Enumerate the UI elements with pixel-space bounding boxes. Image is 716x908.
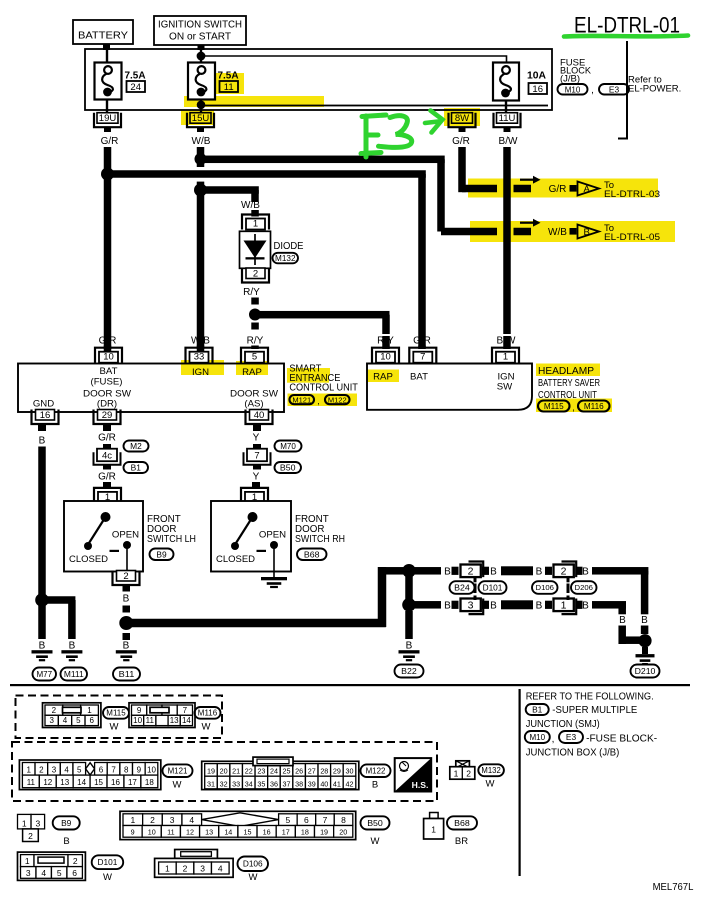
svg-text:SWITCH RH: SWITCH RH	[295, 534, 345, 545]
wire R/Y branch right to headlamp RAP	[255, 311, 390, 319]
LH switch pivot	[101, 512, 111, 522]
svg-text:SW: SW	[497, 382, 513, 393]
svg-text:B9: B9	[61, 818, 72, 828]
svg-text:15U: 15U	[192, 113, 210, 124]
fuse 24 number box	[127, 81, 146, 92]
svg-text:10A: 10A	[527, 71, 546, 82]
oval M121 legend	[163, 764, 193, 777]
wire W/B vertical lower	[197, 182, 205, 352]
stub above door switch pin 1	[103, 482, 111, 489]
svg-text:1: 1	[22, 818, 27, 828]
svg-text:(DR): (DR)	[97, 399, 117, 410]
svg-text:,: ,	[317, 396, 320, 406]
svg-text:2: 2	[253, 268, 258, 279]
smart pin 10 connector	[95, 348, 122, 363]
svg-text:18: 18	[145, 778, 154, 787]
svg-text:W/B: W/B	[548, 227, 567, 238]
svg-text:14: 14	[224, 828, 232, 837]
green underline of title	[564, 36, 688, 37]
svg-text:B24: B24	[454, 583, 470, 593]
oval M132 legend	[478, 764, 504, 776]
oval B24	[450, 581, 475, 594]
headlamp battery saver control unit box	[367, 364, 532, 410]
svg-text:14: 14	[182, 716, 191, 725]
wire segment bottom run	[501, 600, 533, 609]
oval M10 refer	[525, 731, 550, 743]
wire G/R branch right	[108, 170, 426, 178]
svg-text:40: 40	[320, 779, 328, 788]
svg-text:D210: D210	[635, 666, 656, 676]
mate dash D106 D206	[567, 578, 570, 583]
svg-text:37: 37	[283, 779, 291, 788]
RH switch travel dash	[257, 550, 267, 552]
oval M116 ref	[578, 401, 610, 412]
LH door switch pin 2 connector	[113, 571, 140, 586]
diode pin 1 connector	[242, 215, 269, 230]
junction dot D210	[638, 634, 651, 647]
wire B branch to M111 ground	[42, 596, 75, 604]
RH switch closed contact	[231, 542, 239, 550]
svg-text:34: 34	[245, 779, 253, 788]
svg-text:B: B	[582, 600, 589, 611]
SMJ connector 1	[562, 599, 577, 615]
diode pin 2 connector	[242, 268, 269, 283]
wire segment top run	[501, 566, 533, 575]
svg-text:M10: M10	[565, 84, 581, 94]
svg-text:M10: M10	[529, 732, 545, 742]
svg-text:3: 3	[170, 815, 175, 825]
svg-text:M116: M116	[198, 709, 217, 718]
svg-text:2: 2	[123, 571, 128, 582]
svg-text:W/B: W/B	[192, 136, 211, 147]
svg-text:G/R: G/R	[413, 336, 431, 347]
svg-text:11: 11	[224, 82, 234, 93]
connector face B9	[18, 814, 32, 829]
RH switch pivot	[248, 512, 258, 522]
svg-text:B: B	[63, 836, 69, 847]
svg-text:M132: M132	[275, 253, 296, 263]
svg-text:3: 3	[200, 864, 205, 874]
svg-text:IGNITION SWITCH: IGNITION SWITCH	[158, 18, 242, 30]
RH switch ground wire	[273, 545, 275, 577]
wire G/R vertical from 19U	[104, 147, 112, 352]
connector 11U	[494, 113, 521, 128]
svg-text:18: 18	[301, 828, 309, 837]
svg-text:3: 3	[26, 868, 31, 878]
svg-text:1: 1	[253, 219, 258, 230]
wire B GND vertical	[38, 447, 46, 596]
fuse 16 number box	[529, 83, 548, 94]
svg-text:38: 38	[295, 779, 303, 788]
RH switch ground symbol	[261, 577, 287, 580]
svg-text:5: 5	[76, 716, 81, 725]
svg-text:27: 27	[308, 767, 316, 776]
oval M77	[33, 668, 57, 681]
svg-text:G/R: G/R	[101, 136, 119, 147]
smart pin 29 connector	[94, 410, 121, 425]
legend dashed box 2	[12, 742, 437, 801]
refer column vertical line	[519, 689, 521, 876]
svg-text:7: 7	[323, 815, 328, 825]
svg-text:M116: M116	[584, 402, 604, 411]
svg-text:3: 3	[468, 600, 474, 612]
svg-text:D101: D101	[98, 858, 118, 867]
svg-text:32: 32	[220, 779, 228, 788]
svg-text:1: 1	[561, 600, 567, 612]
svg-text:B11: B11	[119, 669, 135, 679]
junction dot bottom run	[402, 598, 416, 612]
svg-text:5: 5	[252, 352, 257, 363]
svg-text:(AS): (AS)	[244, 399, 263, 410]
svg-text:6: 6	[304, 815, 309, 825]
connector face M115	[43, 703, 101, 728]
svg-text:31: 31	[207, 779, 215, 788]
wire W/B branch to EL-DTRL-05	[201, 156, 445, 164]
svg-text:2: 2	[52, 706, 57, 715]
svg-text:B50: B50	[280, 463, 296, 473]
svg-text:4: 4	[63, 716, 68, 725]
wire to first B	[413, 567, 441, 575]
svg-text:D101: D101	[483, 583, 503, 592]
svg-text:B: B	[536, 566, 543, 577]
svg-text:B: B	[490, 566, 497, 577]
svg-text:M115: M115	[106, 709, 126, 718]
svg-text:5: 5	[77, 766, 82, 775]
svg-text:6: 6	[99, 766, 104, 775]
svg-text:2: 2	[150, 815, 155, 825]
svg-text:W: W	[202, 722, 211, 733]
LH switch open contact wire to pin 2	[126, 545, 128, 571]
green handwritten E3 annotation	[361, 115, 412, 157]
junction dot top run	[402, 564, 416, 578]
svg-text:4: 4	[218, 864, 223, 874]
svg-text:15: 15	[243, 828, 251, 837]
top slot M122	[253, 757, 293, 766]
oval M111	[61, 668, 88, 681]
svg-text:4: 4	[41, 868, 46, 878]
svg-text:7: 7	[111, 766, 116, 775]
svg-text:2: 2	[183, 864, 188, 874]
svg-text:M122: M122	[366, 767, 386, 776]
stub below pin 29	[103, 425, 111, 431]
svg-text:(FUSE): (FUSE)	[91, 377, 123, 388]
svg-text:24: 24	[270, 767, 278, 776]
svg-text:B: B	[444, 566, 451, 577]
dash segment below diode	[251, 298, 258, 305]
oval D101 inline	[479, 581, 507, 594]
stub above headlamp pin 1	[503, 336, 511, 349]
oval E3 refer	[559, 731, 583, 743]
svg-text:7.5A: 7.5A	[218, 71, 239, 82]
svg-text:3: 3	[52, 766, 57, 775]
svg-text:24: 24	[130, 82, 141, 93]
stub left of connector 1	[545, 601, 552, 609]
svg-text:21: 21	[232, 767, 240, 776]
oval D106 legend	[238, 857, 269, 872]
svg-text:G/R: G/R	[549, 184, 567, 195]
diode symbol	[254, 234, 256, 265]
RH door switch pin 1 connector	[241, 488, 268, 503]
svg-text:1: 1	[87, 706, 92, 715]
LH door switch pin 1 connector	[94, 488, 121, 503]
stub below pin 40	[253, 425, 261, 431]
connector face D106	[175, 850, 218, 859]
stub above smart pin 5	[251, 346, 259, 350]
svg-text:D206: D206	[575, 583, 593, 592]
oval B1	[124, 462, 149, 473]
svg-text:CLOSED: CLOSED	[69, 554, 108, 565]
svg-text:16: 16	[111, 778, 120, 787]
svg-text:4c: 4c	[102, 451, 112, 462]
oval B50 inline	[275, 462, 302, 473]
svg-text:B: B	[123, 593, 130, 604]
svg-text:BATTERY SAVER: BATTERY SAVER	[538, 378, 600, 389]
highlight over RAP pin label headlamp unit	[367, 370, 399, 383]
svg-text:36: 36	[270, 779, 278, 788]
svg-text:Y: Y	[253, 433, 260, 444]
SMJ connector 2 top run	[469, 562, 484, 578]
svg-text:(J/B): (J/B)	[560, 74, 580, 85]
svg-text:SWITCH LH: SWITCH LH	[147, 534, 196, 545]
wire fuse 16 to 11U	[505, 101, 507, 113]
svg-text:H.S.: H.S.	[412, 780, 429, 790]
svg-text:1: 1	[431, 825, 436, 835]
svg-text:13: 13	[170, 716, 179, 725]
green arrow annotation	[425, 111, 443, 133]
oval B22	[395, 665, 424, 678]
svg-text:10: 10	[147, 766, 156, 775]
wire B to junction dot top	[378, 567, 406, 575]
mate dash B24 D101	[474, 578, 477, 583]
svg-text:B: B	[490, 600, 497, 611]
svg-text:BAT: BAT	[100, 366, 118, 377]
svg-text:M115: M115	[544, 402, 564, 411]
svg-text:W: W	[110, 722, 119, 733]
oval M115 legend	[103, 707, 129, 719]
connector face M121	[19, 760, 160, 790]
svg-text:G/R: G/R	[98, 433, 116, 444]
svg-text:15: 15	[94, 778, 103, 787]
connector face B68	[430, 813, 439, 819]
highlight over IGN pin label	[181, 360, 224, 375]
svg-text:B: B	[406, 641, 413, 652]
highlight over G/R to EL-DTRL-03 row	[468, 179, 658, 198]
svg-text:B/W: B/W	[499, 136, 518, 147]
svg-text:30: 30	[346, 767, 354, 776]
junction dot B11	[119, 616, 133, 630]
svg-text:M122: M122	[328, 395, 347, 404]
oval D106 inline	[532, 581, 558, 594]
svg-text:3: 3	[49, 716, 54, 725]
svg-text:33: 33	[232, 779, 240, 788]
oval M122	[325, 395, 350, 404]
svg-text:B50: B50	[367, 818, 383, 828]
dash below B11 junction	[123, 633, 131, 640]
svg-text:B: B	[584, 227, 590, 238]
stub to connector 7	[253, 444, 261, 450]
oval B11	[113, 668, 140, 681]
junction dot G/R	[101, 168, 114, 181]
svg-text:B: B	[123, 641, 130, 652]
svg-text:35: 35	[257, 779, 265, 788]
svg-text:29: 29	[333, 767, 341, 776]
svg-text:12: 12	[43, 778, 52, 787]
svg-text:B: B	[372, 780, 378, 791]
svg-text:GND: GND	[33, 399, 54, 410]
svg-text:MEL767L: MEL767L	[653, 881, 694, 893]
oval B68 legend	[447, 816, 477, 829]
svg-text:7: 7	[420, 352, 425, 363]
LH switch travel dash	[110, 550, 120, 552]
svg-text:Y: Y	[253, 471, 260, 482]
svg-text:2: 2	[73, 856, 78, 866]
svg-text:BATTERY: BATTERY	[78, 30, 128, 42]
svg-text:10: 10	[148, 828, 156, 837]
stub above headlamp pin 10	[382, 336, 390, 349]
oval M115 ref	[538, 401, 570, 412]
stub left of D106/D206	[545, 567, 552, 575]
svg-text:R/Y: R/Y	[247, 336, 264, 347]
oval B50 legend	[361, 816, 390, 829]
svg-text:33: 33	[194, 352, 205, 363]
oval M116 legend	[195, 707, 221, 719]
svg-text:-SUPER MULTIPLE: -SUPER MULTIPLE	[552, 704, 637, 716]
svg-text:7: 7	[183, 706, 188, 715]
oval M121	[290, 395, 315, 404]
svg-text:9: 9	[131, 828, 135, 837]
oval M10	[558, 84, 588, 95]
HS hand symbol	[395, 758, 432, 791]
triangle connector A	[578, 182, 600, 196]
stub below connector 7	[253, 464, 261, 470]
oval D206	[571, 581, 597, 594]
svg-text:W/B: W/B	[241, 200, 260, 211]
stub above RH switch pin 1	[252, 482, 260, 489]
svg-text:13: 13	[60, 778, 69, 787]
stub right of D106/D206	[576, 567, 583, 575]
junction dot B gnd	[35, 593, 49, 607]
smart pin 16 connector	[32, 410, 59, 425]
wire B down to M77 ground	[38, 605, 46, 639]
highlight over W/B to EL-DTRL-05 row	[470, 221, 675, 242]
svg-text:B: B	[582, 566, 589, 577]
svg-text:11: 11	[27, 778, 36, 787]
stub right of connector 3	[482, 601, 489, 609]
svg-text:20: 20	[220, 767, 228, 776]
fuse 11 number box	[220, 81, 239, 92]
bracket line	[618, 41, 627, 139]
svg-text:2: 2	[466, 769, 471, 779]
wire elbow down to D210 junction	[618, 626, 626, 645]
dash segment above diode	[251, 210, 258, 217]
svg-text:5: 5	[57, 868, 62, 878]
ignition switch box	[154, 16, 246, 45]
junction dot R/Y	[249, 309, 261, 321]
connector face M116	[129, 703, 195, 728]
svg-text:25: 25	[283, 767, 291, 776]
highlight over SMART ENTRANCE text	[287, 368, 330, 376]
svg-text:HEADLAMP: HEADLAMP	[538, 366, 594, 377]
svg-text:29: 29	[102, 410, 113, 421]
ground D210	[636, 654, 655, 657]
stub above headlamp pin 7	[418, 346, 426, 350]
svg-text:11: 11	[146, 716, 155, 725]
highlight over fuse 11 label	[216, 73, 244, 94]
svg-text:17: 17	[282, 828, 290, 837]
svg-text:B68: B68	[304, 549, 320, 559]
wire bottom run right elbow	[592, 601, 626, 609]
svg-text:11U: 11U	[499, 113, 516, 124]
svg-text:G/R: G/R	[452, 136, 470, 147]
fuse F24 7.5A	[95, 63, 122, 100]
svg-text:17: 17	[128, 778, 137, 787]
connector face M122	[202, 761, 359, 789]
svg-text:M121: M121	[292, 395, 311, 404]
svg-text:19U: 19U	[99, 113, 117, 124]
svg-text:OPEN: OPEN	[259, 529, 286, 540]
stub before triangle A	[570, 185, 577, 192]
wire W/B vertical upper	[197, 147, 205, 167]
svg-text:B: B	[39, 436, 46, 447]
svg-text:2: 2	[28, 831, 33, 841]
wire segment above D210 junction	[641, 626, 649, 635]
stub left of connector 3	[452, 601, 459, 609]
svg-text:CLOSED: CLOSED	[216, 554, 255, 565]
connector 8W	[449, 113, 476, 128]
oval E3	[599, 84, 629, 95]
front door switch LH box	[64, 501, 143, 572]
wire W/B segment after crossover	[514, 228, 532, 236]
svg-text:14: 14	[77, 778, 86, 787]
wire G/R from 8W down	[458, 147, 466, 192]
highlight over M121 M122 ovals	[288, 394, 358, 407]
svg-text:B9: B9	[156, 549, 167, 559]
oval B68 ref	[297, 549, 327, 561]
svg-text:1: 1	[454, 769, 459, 779]
svg-text:M70: M70	[280, 441, 296, 451]
svg-text:IGN: IGN	[192, 367, 209, 378]
headlamp pin 10 connector	[372, 348, 399, 363]
svg-text:16: 16	[532, 84, 543, 95]
svg-text:W/B: W/B	[191, 336, 210, 347]
svg-text:19: 19	[207, 767, 215, 776]
svg-text:42: 42	[346, 779, 354, 788]
svg-text:EL-POWER.: EL-POWER.	[628, 84, 681, 95]
svg-text:B1: B1	[532, 705, 543, 715]
wire B branch right from B11	[126, 619, 386, 628]
connector 19U	[94, 113, 121, 128]
inline connector 4c	[97, 449, 117, 462]
svg-text:7: 7	[254, 451, 259, 462]
svg-text:M121: M121	[168, 767, 188, 776]
inline connector 7 RH	[247, 449, 267, 462]
junction dot ignition feed	[197, 52, 206, 61]
oval D101 legend	[92, 855, 124, 869]
svg-text:,: ,	[572, 403, 575, 413]
svg-text:W: W	[103, 872, 112, 883]
svg-text:1: 1	[26, 766, 31, 775]
svg-text:G/R: G/R	[99, 336, 117, 347]
svg-text:8W: 8W	[455, 113, 469, 124]
svg-text:E3: E3	[566, 732, 577, 742]
svg-text:B: B	[536, 600, 543, 611]
svg-text:10: 10	[133, 716, 142, 725]
LH switch open contact	[123, 541, 131, 549]
svg-text:16: 16	[263, 828, 271, 837]
highlight over connector 8W	[444, 108, 480, 126]
ground M77	[32, 650, 53, 653]
svg-text:B68: B68	[454, 818, 470, 828]
